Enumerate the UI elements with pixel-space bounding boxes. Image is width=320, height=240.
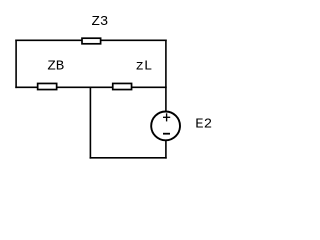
svg-text:zL: zL bbox=[136, 58, 153, 74]
svg-text:ZB: ZB bbox=[47, 58, 64, 74]
svg-text:Z3: Z3 bbox=[92, 14, 109, 30]
svg-text:E2: E2 bbox=[195, 117, 212, 133]
